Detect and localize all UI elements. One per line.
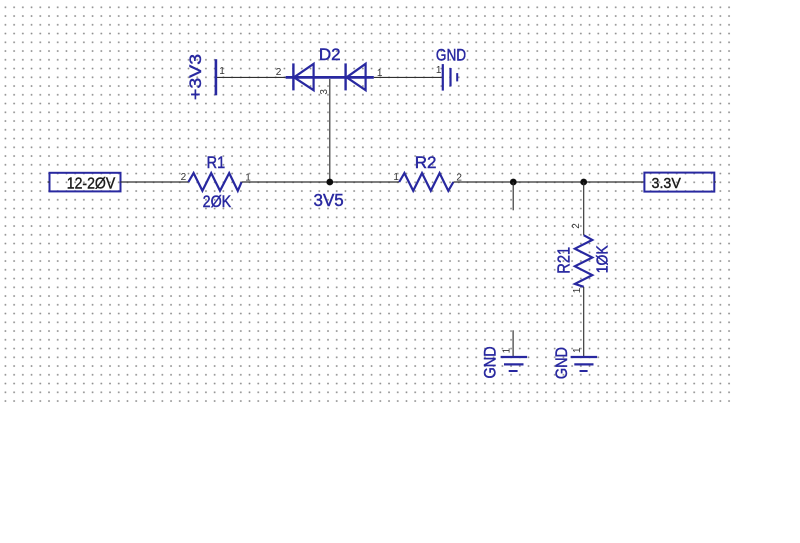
power port GND bottom-right: [553, 347, 597, 379]
junction at stub: [510, 179, 517, 186]
svg-text:R2: R2: [415, 153, 437, 172]
wire R1 to R2 through node 3V5: [242, 181, 400, 183]
wire D2 to GND top: [374, 76, 442, 78]
port 3.3V: [644, 173, 716, 193]
power port GND bottom-left: [482, 346, 527, 378]
svg-text:1: 1: [436, 65, 442, 76]
svg-text:GND: GND: [436, 46, 466, 65]
svg-text:1ØK: 1ØK: [595, 245, 612, 273]
power port +3V3: [185, 54, 216, 100]
svg-text:GND: GND: [482, 346, 500, 378]
wire 12-20V to R1: [121, 181, 189, 183]
junction node 3V5: [326, 179, 333, 186]
svg-text:3.3V: 3.3V: [652, 176, 682, 192]
junction at R21: [580, 179, 587, 186]
port 12-20V: [48, 173, 121, 193]
wire stub down from junction: [512, 182, 514, 210]
wire to GND bottom-left: [512, 330, 514, 356]
diode D2: [286, 45, 374, 90]
resistor R1: [188, 154, 241, 211]
svg-text:GND: GND: [553, 347, 571, 379]
svg-text:1: 1: [572, 347, 583, 353]
svg-text:1: 1: [219, 66, 225, 77]
svg-text:2ØK: 2ØK: [203, 193, 232, 211]
svg-text:3V5: 3V5: [314, 190, 344, 210]
resistor R2: [399, 153, 453, 191]
svg-text:R1: R1: [207, 154, 225, 172]
svg-text:1: 1: [572, 287, 583, 293]
svg-text:3: 3: [319, 89, 330, 95]
svg-text:2: 2: [276, 67, 282, 78]
svg-text:1: 1: [393, 172, 399, 183]
svg-text:D2: D2: [319, 45, 341, 64]
wire D2 pin3 down to node 3V5: [329, 79, 331, 182]
svg-text:R21: R21: [554, 247, 573, 274]
svg-text:12-2ØV: 12-2ØV: [67, 175, 116, 193]
svg-text:2: 2: [181, 172, 187, 183]
svg-text:1: 1: [502, 347, 513, 353]
power port GND top: [436, 46, 466, 90]
wire junction to R21: [583, 182, 585, 235]
svg-text:+3V3: +3V3: [185, 54, 204, 100]
wire R2 to port 3.3V: [453, 181, 644, 183]
wire +3V3 to D2: [217, 76, 286, 78]
svg-text:2: 2: [571, 223, 582, 229]
resistor R21: [554, 235, 611, 287]
wire R21 to GND bottom-right: [583, 287, 585, 356]
